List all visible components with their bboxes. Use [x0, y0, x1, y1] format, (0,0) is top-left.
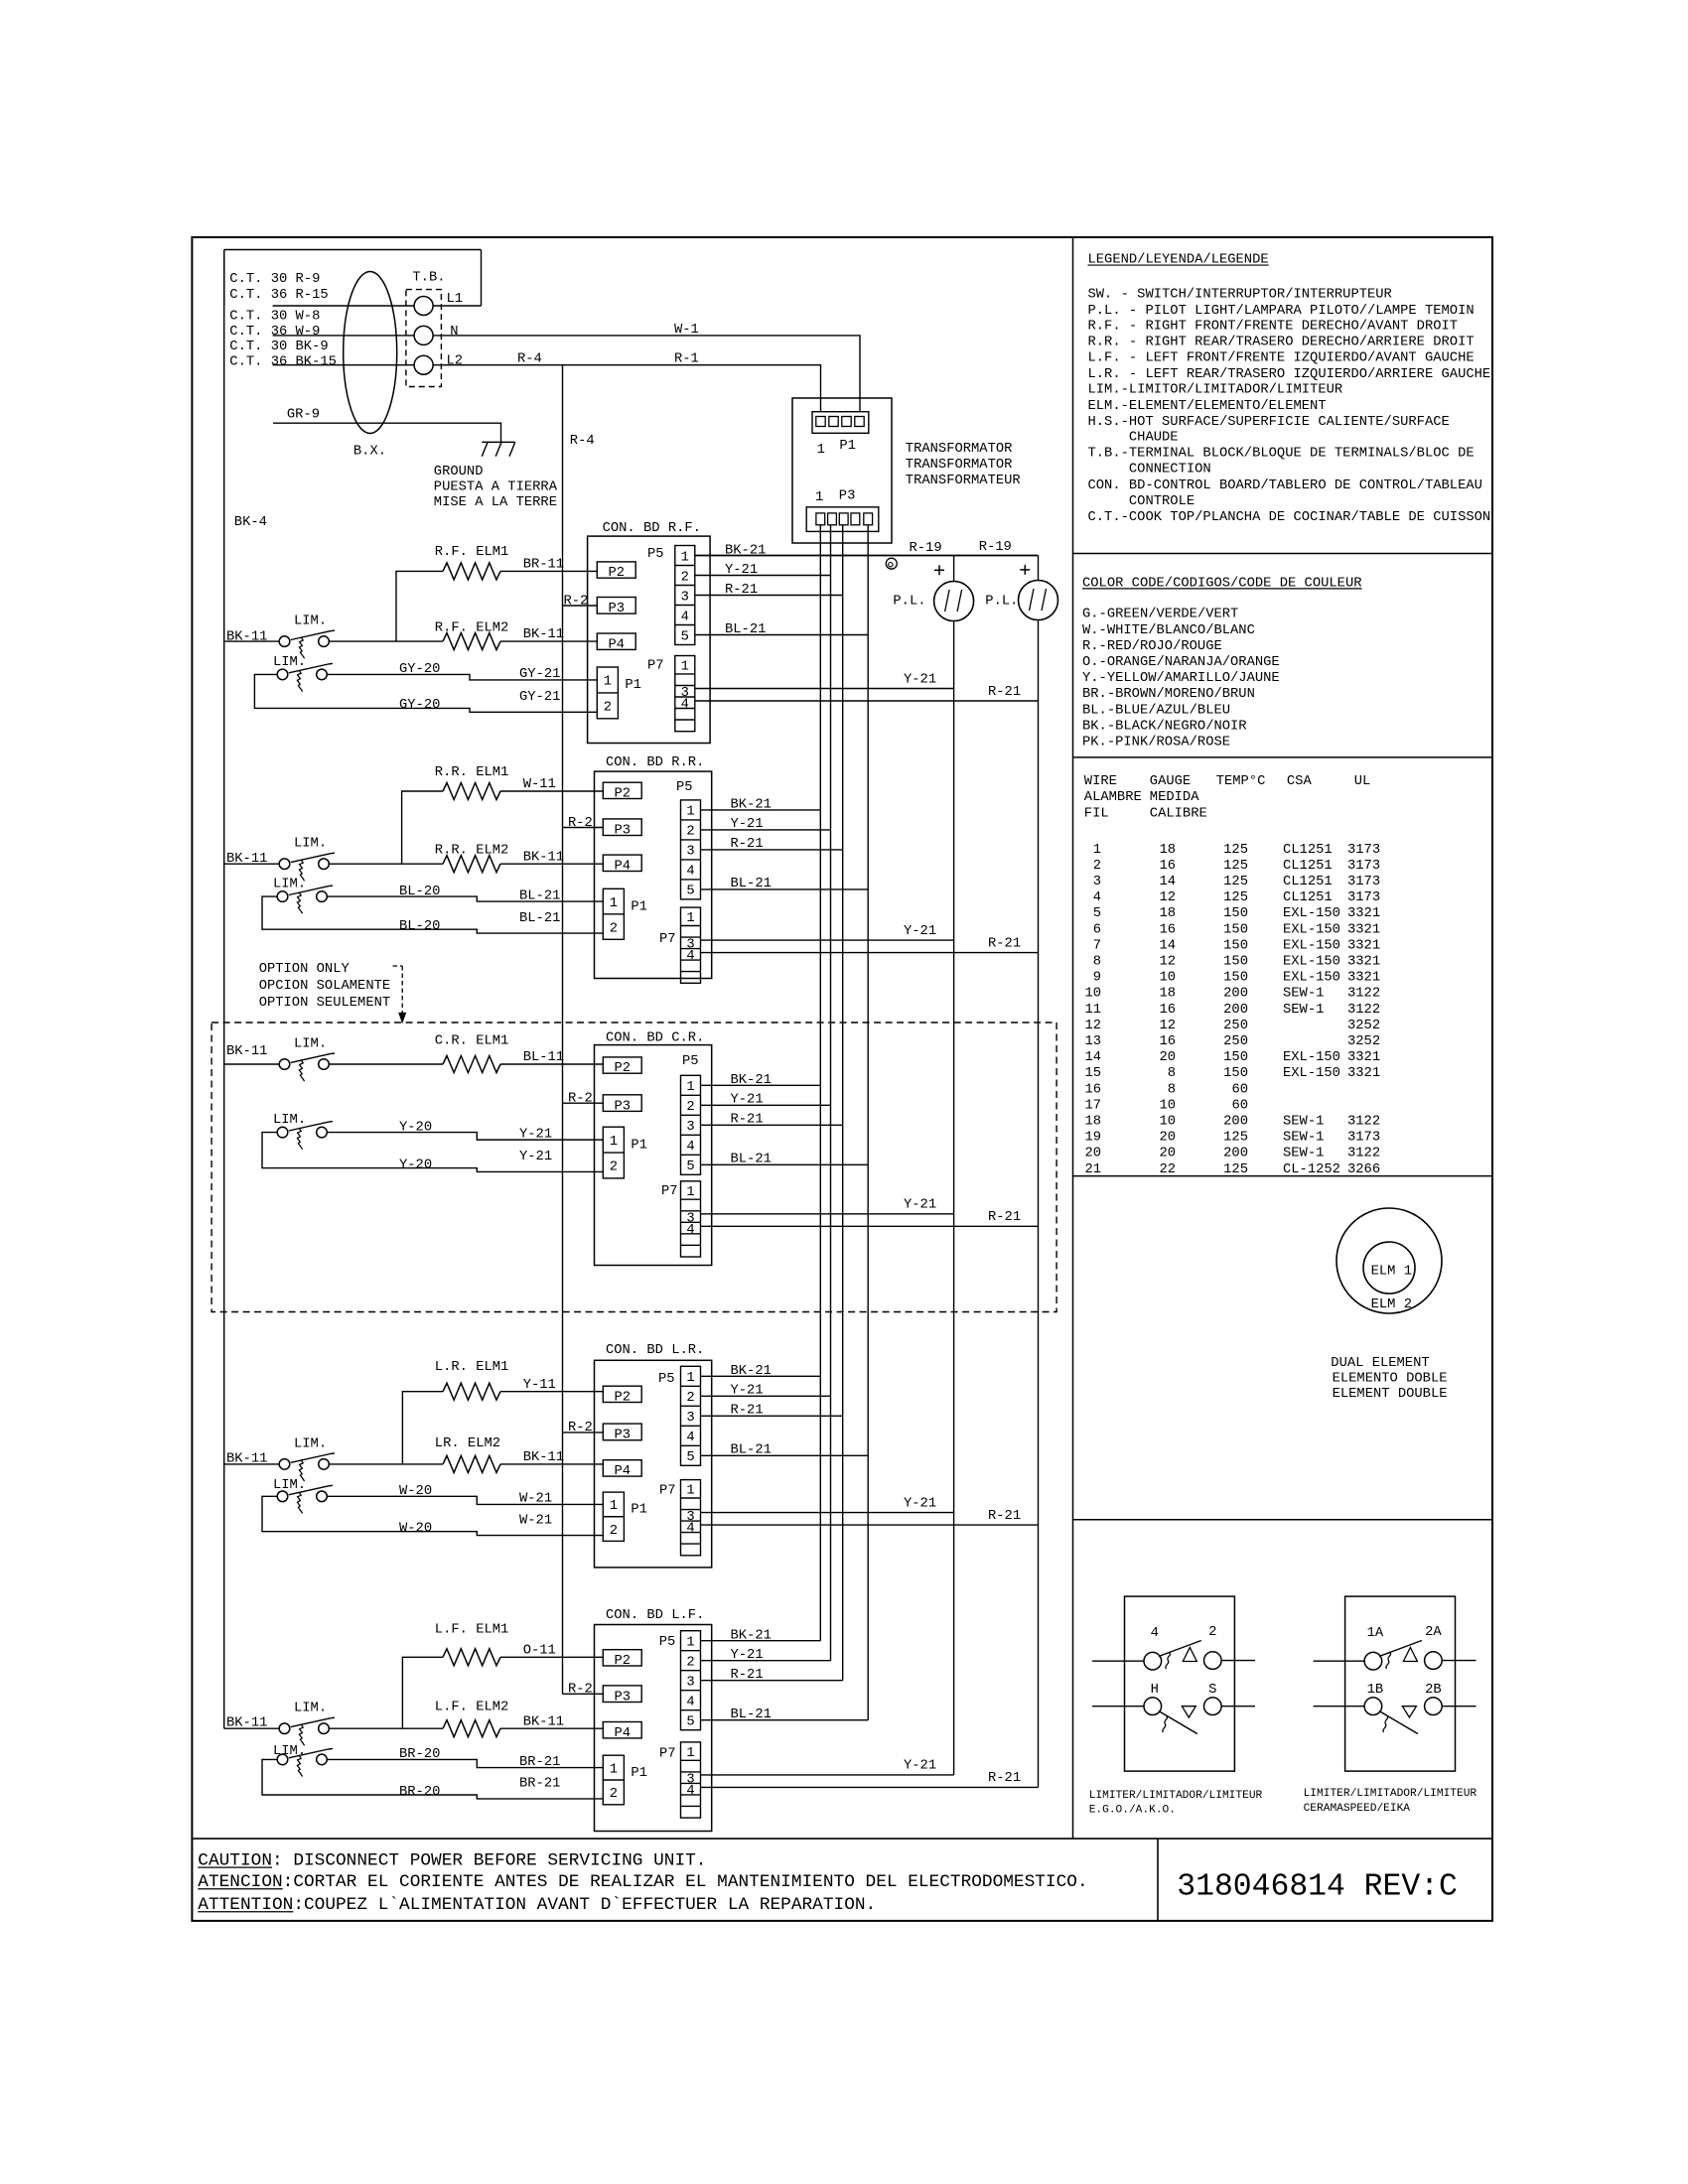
svg-text:R.F. ELM1: R.F. ELM1 [435, 545, 509, 560]
svg-text:ATENCION:CORTAR EL CORIENTE AN: ATENCION:CORTAR EL CORIENTE ANTES DE REA… [198, 1872, 1087, 1892]
limiter switch LIM upper R.F. [279, 636, 290, 647]
svg-text:P2: P2 [614, 787, 631, 802]
wire N / W-1 to transformer [433, 336, 860, 412]
svg-text:9: 9 [1093, 971, 1101, 986]
svg-text:DUAL ELEMENT: DUAL ELEMENT [1331, 1356, 1429, 1371]
svg-text:4: 4 [686, 949, 694, 964]
svg-text:5: 5 [686, 1715, 694, 1730]
wire R-21 R.R. P7 pin4 [701, 952, 1039, 954]
svg-text:BL-11: BL-11 [523, 1050, 564, 1065]
svg-text:R.F. - RIGHT FRONT/FRENTE DERE: R.F. - RIGHT FRONT/FRENTE DERECHO/AVANT … [1088, 319, 1459, 335]
svg-text:Y-21: Y-21 [904, 1496, 936, 1511]
svg-text:18: 18 [1159, 843, 1176, 858]
contact triangle bottom [1182, 1706, 1196, 1717]
terminal circles top row [1364, 1652, 1382, 1670]
svg-text:BK-11: BK-11 [226, 1452, 267, 1467]
L.F. connector P4 [603, 1722, 641, 1738]
svg-text:1: 1 [681, 660, 689, 675]
svg-text:R-19: R-19 [979, 540, 1012, 555]
bus R-21 from P3 pin3 [842, 525, 844, 1681]
svg-text:P4: P4 [614, 1464, 631, 1479]
terminal circles bottom row [1144, 1698, 1162, 1715]
svg-text:3321: 3321 [1347, 922, 1380, 937]
svg-text:ELM 2: ELM 2 [1371, 1297, 1412, 1312]
limiter switch LIM lower R.R. [277, 891, 288, 902]
R.F. connector P3 [597, 598, 635, 614]
svg-text:2: 2 [686, 1391, 694, 1406]
svg-text:CSA: CSA [1287, 774, 1313, 789]
R.F. connector P4 [597, 633, 635, 649]
wire Y-21 R.F. P5 [695, 575, 831, 577]
svg-text:150: 150 [1223, 922, 1248, 937]
svg-text:P1: P1 [631, 899, 647, 914]
svg-text:1: 1 [610, 1762, 618, 1777]
svg-text:3122: 3122 [1347, 1147, 1380, 1161]
svg-text:12: 12 [1159, 890, 1176, 905]
svg-text:R-2: R-2 [568, 816, 593, 831]
svg-text:1: 1 [686, 1746, 694, 1761]
svg-text:W.-WHITE/BLANCO/BLANC: W.-WHITE/BLANCO/BLANC [1082, 622, 1255, 638]
svg-text:CL1251: CL1251 [1283, 875, 1333, 889]
svg-text:4: 4 [1093, 890, 1101, 905]
svg-text:13: 13 [1084, 1034, 1101, 1049]
resistor C.R. ELM1 [443, 1056, 500, 1073]
pilot light lamp right [1019, 581, 1058, 620]
svg-text:GY-20: GY-20 [399, 662, 440, 677]
L.R. connector P3 [603, 1424, 641, 1440]
supply block box [223, 250, 225, 307]
svg-text:4: 4 [686, 1140, 694, 1155]
svg-text:R-2: R-2 [568, 1421, 593, 1435]
svg-text:16: 16 [1159, 922, 1176, 937]
svg-text:1: 1 [686, 911, 694, 926]
svg-text:LIM.: LIM. [273, 1744, 306, 1759]
svg-text:L.F. ELM1: L.F. ELM1 [435, 1623, 509, 1638]
wire LIM to riser L.F. [330, 1727, 443, 1729]
svg-text:CL1251: CL1251 [1283, 859, 1333, 874]
svg-text:PUESTA A TIERRA: PUESTA A TIERRA [434, 479, 558, 494]
svg-text:CALIBRE: CALIBRE [1150, 806, 1207, 821]
svg-text:R.R. - RIGHT REAR/TRASERO DERE: R.R. - RIGHT REAR/TRASERO DERECHO/ARRIER… [1088, 335, 1475, 350]
wire L2 / R-1 to transformer [433, 365, 820, 412]
switch arm top [1159, 1641, 1201, 1657]
svg-text:W-20: W-20 [399, 1521, 432, 1536]
svg-text:5: 5 [1093, 906, 1101, 921]
wire Y-20 lower C.R. [262, 1133, 603, 1172]
svg-text:150: 150 [1223, 1066, 1248, 1081]
svg-text:3173: 3173 [1347, 890, 1380, 905]
svg-text:10: 10 [1159, 971, 1176, 986]
wire L2 left [273, 364, 415, 366]
svg-text:BL-20: BL-20 [399, 885, 440, 899]
svg-text:T.B.: T.B. [412, 270, 445, 285]
svg-text:R.R. ELM1: R.R. ELM1 [435, 765, 509, 780]
svg-text:22: 22 [1159, 1162, 1176, 1177]
pilot light lamp left [934, 582, 974, 621]
svg-text:3: 3 [686, 1120, 694, 1135]
svg-text:200: 200 [1223, 1003, 1248, 1018]
wire LIM to riser L.R. [330, 1463, 443, 1465]
svg-text:11: 11 [1084, 1003, 1101, 1018]
wire BK-21 R.R. [701, 809, 821, 811]
svg-text:P7: P7 [659, 1483, 676, 1498]
contact triangle top [1183, 1648, 1196, 1662]
svg-text:12: 12 [1084, 1019, 1101, 1033]
svg-text:BK-21: BK-21 [725, 543, 766, 558]
svg-text:BK.-BLACK/NEGRO/NOIR: BK.-BLACK/NEGRO/NOIR [1082, 718, 1247, 734]
svg-text:R-4: R-4 [570, 434, 595, 449]
R.F. connector P1 [597, 667, 618, 719]
svg-text:150: 150 [1223, 938, 1248, 953]
svg-text:SW. - SWITCH/INTERRUPTOR/INTE: SW. - SWITCH/INTERRUPTOR/INTERRUPTEUR [1088, 287, 1392, 303]
C.R. connector P5 [681, 1075, 701, 1174]
svg-text:BL-21: BL-21 [731, 1153, 772, 1167]
svg-text:1: 1 [686, 1371, 694, 1386]
svg-text:7: 7 [1093, 938, 1101, 953]
wire LIM to riser R.F. [330, 640, 443, 642]
svg-text:H: H [1151, 1683, 1159, 1698]
wire ELM2 to P4 L.F. [500, 1727, 603, 1729]
svg-text:BK-11: BK-11 [226, 1044, 267, 1059]
svg-text:12: 12 [1159, 955, 1176, 970]
svg-text:18: 18 [1159, 987, 1176, 1002]
svg-text:GY-21: GY-21 [519, 690, 560, 705]
svg-text:60: 60 [1231, 1098, 1248, 1113]
svg-text:4: 4 [686, 1784, 694, 1799]
svg-text:3122: 3122 [1347, 1003, 1380, 1018]
svg-text:Y-21: Y-21 [904, 1198, 936, 1213]
svg-text:3122: 3122 [1347, 1115, 1380, 1130]
svg-text:OPCION SOLAMENTE: OPCION SOLAMENTE [259, 979, 390, 994]
svg-text:1: 1 [604, 675, 612, 690]
limiter switch LIM lower L.F. [277, 1754, 288, 1765]
svg-text:15: 15 [1084, 1066, 1101, 1081]
plus sign left [934, 569, 944, 571]
svg-text:60: 60 [1231, 1082, 1248, 1097]
svg-text:R-21: R-21 [988, 1509, 1021, 1524]
svg-text:CL1251: CL1251 [1283, 843, 1333, 858]
svg-text:BK-21: BK-21 [731, 1364, 772, 1379]
R.R. connector P5 [681, 800, 701, 899]
svg-text:4: 4 [686, 1696, 694, 1710]
svg-text:2: 2 [1093, 859, 1101, 874]
svg-text:GY-21: GY-21 [519, 667, 560, 682]
svg-text:318046814 REV:C: 318046814 REV:C [1177, 1870, 1458, 1905]
resistor LR. ELM2 [443, 1455, 500, 1472]
svg-text:BK-11: BK-11 [523, 627, 564, 642]
svg-text:5: 5 [686, 1160, 694, 1174]
wire R-21 R.F. P5 [695, 595, 843, 597]
L.F. connector P1 [603, 1755, 624, 1805]
wire table bottom line [1073, 1175, 1493, 1177]
svg-text:O-11: O-11 [523, 1643, 556, 1658]
svg-text:LIM.: LIM. [273, 1478, 306, 1493]
wire BL-21 C.R. [701, 1163, 869, 1165]
R-19 wire [694, 555, 1038, 557]
svg-text:3321: 3321 [1347, 938, 1380, 953]
svg-text:MISE A LA TERRE: MISE A LA TERRE [434, 495, 557, 510]
left BK bus wire [223, 250, 225, 1729]
svg-text:20: 20 [1159, 1131, 1176, 1146]
limiter switch LIM upper C.R. [279, 1059, 290, 1070]
wire BK-11 into R.F. [224, 640, 280, 642]
svg-text:R-21: R-21 [988, 936, 1021, 951]
wire BL-21 R.F. [695, 634, 868, 636]
svg-text:BR-20: BR-20 [399, 1747, 440, 1762]
svg-text:10: 10 [1084, 987, 1101, 1002]
L.F. connector P5 [681, 1631, 701, 1730]
svg-text:150: 150 [1223, 1050, 1248, 1065]
svg-text:21: 21 [1084, 1162, 1101, 1177]
limiter switch LIM lower C.R. [277, 1127, 288, 1138]
svg-text:EXL-150: EXL-150 [1283, 971, 1340, 986]
R.F. connector P5 [675, 546, 695, 645]
ground symbol [482, 441, 515, 443]
svg-text:L.R. - LEFT REAR/TRASERO IZQUI: L.R. - LEFT REAR/TRASERO IZQUIERDO/ARRIE… [1088, 366, 1491, 382]
C.R. connector P3 [603, 1095, 641, 1112]
svg-text:1: 1 [686, 805, 694, 820]
svg-text:4: 4 [681, 698, 689, 713]
svg-text:200: 200 [1223, 987, 1248, 1002]
legend box bottom line [1073, 553, 1493, 555]
svg-text:P5: P5 [676, 780, 693, 795]
limiter switch LIM upper R.R. [279, 859, 290, 870]
svg-text:CERAMASPEED/EIKA: CERAMASPEED/EIKA [1304, 1803, 1411, 1815]
svg-text:BK-4: BK-4 [234, 515, 267, 530]
R-21 pilot bus vertical [1038, 556, 1040, 581]
svg-text:14: 14 [1084, 1050, 1101, 1065]
color code box bottom line [1073, 756, 1493, 758]
R.R. connector P3 [603, 819, 641, 836]
svg-text:200: 200 [1223, 1147, 1248, 1161]
resistor R.F. ELM1 [443, 563, 500, 580]
transformer P3 connector [806, 507, 879, 532]
svg-text:20: 20 [1084, 1147, 1101, 1161]
svg-text:GROUND: GROUND [434, 465, 484, 479]
svg-text:BK-11: BK-11 [226, 1716, 267, 1731]
svg-text:2: 2 [604, 701, 612, 716]
control board box CON. BD L.R. [595, 1360, 712, 1568]
svg-text:CON. BD L.R.: CON. BD L.R. [606, 1343, 704, 1358]
wire BK-21 R.F. [695, 555, 1039, 557]
L.F. connector P7 [681, 1742, 701, 1818]
svg-text:BK-11: BK-11 [226, 630, 267, 645]
resistor R.F. ELM2 [443, 633, 500, 650]
svg-text:6: 6 [1093, 922, 1101, 937]
svg-text:2: 2 [686, 1656, 694, 1671]
svg-text:3173: 3173 [1347, 843, 1380, 858]
bus BL-21 from P3 pin5 [867, 525, 869, 1720]
svg-text:3321: 3321 [1347, 955, 1380, 970]
svg-text:2B: 2B [1425, 1683, 1442, 1698]
wire BK-21 L.R. [701, 1375, 821, 1377]
svg-text:C.T. 30 R-9: C.T. 30 R-9 [229, 272, 320, 287]
svg-text:5: 5 [681, 629, 689, 644]
terminal N circle [414, 326, 433, 344]
svg-text:4: 4 [686, 865, 694, 880]
limiter area top line [1073, 1519, 1493, 1521]
svg-text:LIM.: LIM. [294, 837, 327, 852]
svg-text:CONTROLE: CONTROLE [1129, 494, 1195, 509]
svg-text:200: 200 [1223, 1115, 1248, 1130]
svg-text:R-21: R-21 [731, 1113, 764, 1128]
svg-text:TEMP°C: TEMP°C [1216, 774, 1266, 789]
svg-text:EXL-150: EXL-150 [1283, 955, 1340, 970]
svg-text:ELM 1: ELM 1 [1371, 1264, 1412, 1279]
wire Y-21 L.F. P7 pin3 [701, 1774, 954, 1776]
wire BK-11 into R.R. [224, 863, 280, 865]
svg-text:Y-21: Y-21 [731, 1384, 764, 1399]
svg-text:P4: P4 [608, 637, 625, 652]
svg-text:BK-21: BK-21 [731, 798, 772, 813]
terminal circles top row [1144, 1652, 1162, 1670]
svg-text:R-19: R-19 [910, 541, 942, 556]
svg-text:EXL-150: EXL-150 [1283, 906, 1340, 921]
svg-text:EXL-150: EXL-150 [1283, 938, 1340, 953]
R.F. connector P2 [597, 562, 635, 578]
wire R-2 L.F. [563, 1693, 604, 1695]
wire Y-21 L.F. P5 [701, 1660, 831, 1662]
svg-text:P1: P1 [625, 678, 641, 693]
svg-text:BK-11: BK-11 [523, 850, 564, 865]
svg-text:12: 12 [1159, 1019, 1176, 1033]
svg-text:4: 4 [681, 610, 689, 624]
svg-text:LIM.: LIM. [294, 1702, 327, 1716]
wire ELM2 to P4 R.R. [500, 863, 603, 865]
wire L1 to box [433, 305, 481, 307]
svg-text:LIMITER/LIMITADOR/LIMITEUR: LIMITER/LIMITADOR/LIMITEUR [1304, 1788, 1477, 1800]
svg-text:Y-21: Y-21 [731, 1093, 764, 1108]
svg-text:L.R. ELM1: L.R. ELM1 [435, 1360, 509, 1375]
svg-text:R-21: R-21 [988, 685, 1021, 700]
svg-text:2: 2 [1208, 1625, 1216, 1640]
resistor R.R. ELM1 [443, 783, 500, 800]
transformer box [792, 398, 892, 543]
wire GR-9 to ground [273, 423, 501, 442]
svg-text:2: 2 [610, 1787, 618, 1802]
svg-text:1B: 1B [1367, 1683, 1384, 1698]
svg-text:1: 1 [817, 443, 825, 458]
svg-text:CON. BD C.R.: CON. BD C.R. [606, 1031, 704, 1046]
wire R-21 L.F. P7 pin4 [701, 1786, 1039, 1788]
svg-text:P3: P3 [614, 1099, 631, 1114]
svg-text:P7: P7 [659, 932, 676, 947]
wire R-21 L.R. P7 pin4 [701, 1524, 1039, 1526]
wire Y-21 L.R. P5 [701, 1395, 831, 1397]
svg-text:2: 2 [686, 825, 694, 840]
svg-text:16: 16 [1159, 1003, 1176, 1018]
plus sign right [1020, 569, 1030, 571]
svg-text:BL.-BLUE/AZUL/BLEU: BL.-BLUE/AZUL/BLEU [1082, 702, 1230, 718]
wire BR-20 upper L.F. [328, 1759, 604, 1767]
wire Y-20 upper C.R. [328, 1133, 604, 1141]
svg-text:C.T. 30 W-8: C.T. 30 W-8 [229, 310, 320, 325]
svg-text:R.F. ELM2: R.F. ELM2 [435, 621, 509, 636]
svg-text:BR-21: BR-21 [519, 1755, 560, 1770]
wires top row [1092, 1660, 1144, 1662]
bus BK-21 from P3 pin1 [819, 525, 821, 1641]
svg-text:3321: 3321 [1347, 1050, 1380, 1065]
switch arm bottom [1379, 1711, 1418, 1734]
svg-text:BL-21: BL-21 [731, 877, 772, 891]
svg-text:R-21: R-21 [988, 1771, 1021, 1786]
svg-text:MEDIDA: MEDIDA [1150, 790, 1199, 805]
svg-text:G.-GREEN/VERDE/VERT: G.-GREEN/VERDE/VERT [1082, 607, 1238, 622]
svg-text:CON. BD-CONTROL BOARD/TABLERO: CON. BD-CONTROL BOARD/TABLERO DE CONTROL… [1088, 478, 1482, 493]
svg-text:SEW-1: SEW-1 [1283, 1131, 1324, 1146]
svg-text:LIM.: LIM. [294, 1037, 327, 1052]
svg-text:Y-21: Y-21 [725, 563, 758, 578]
svg-text:125: 125 [1223, 859, 1248, 874]
svg-text:P5: P5 [647, 547, 664, 562]
svg-text:W-21: W-21 [519, 1492, 552, 1507]
svg-text:C.T. 30 BK-9: C.T. 30 BK-9 [229, 340, 328, 354]
svg-text:GR-9: GR-9 [287, 408, 320, 423]
limiter switch LIM lower R.F. [277, 669, 288, 680]
wire BL-20 upper R.R. [328, 896, 604, 901]
svg-text:SEW-1: SEW-1 [1283, 1147, 1324, 1161]
svg-text:Y.-YELLOW/AMARILLO/JAUNE: Y.-YELLOW/AMARILLO/JAUNE [1082, 670, 1280, 686]
wire BK-11 into L.R. [224, 1463, 280, 1465]
L.F. connector P2 [603, 1650, 641, 1666]
L.R. connector P7 [681, 1480, 701, 1556]
svg-text:3: 3 [686, 845, 694, 860]
contact triangle top [1403, 1648, 1417, 1662]
option dashed pointer [393, 965, 403, 967]
svg-text:18: 18 [1084, 1115, 1101, 1130]
svg-text:18: 18 [1159, 906, 1176, 921]
wire R-2 C.R. [563, 1102, 604, 1104]
svg-text:5: 5 [686, 885, 694, 899]
svg-text:1: 1 [610, 1499, 618, 1514]
svg-text:Y-21: Y-21 [519, 1150, 552, 1164]
svg-text:16: 16 [1159, 1034, 1176, 1049]
svg-text:P1: P1 [631, 1766, 647, 1781]
svg-text:BL-21: BL-21 [519, 888, 560, 903]
svg-text:TRANSFORMATOR: TRANSFORMATOR [906, 442, 1013, 457]
terminal L2 circle [414, 355, 433, 374]
svg-text:ATTENTION:COUPEZ L`ALIMENTATIO: ATTENTION:COUPEZ L`ALIMENTATION AVANT D`… [198, 1895, 876, 1915]
svg-text:P5: P5 [659, 1635, 676, 1650]
svg-text:125: 125 [1223, 1162, 1248, 1177]
svg-text:19: 19 [1084, 1131, 1101, 1146]
svg-text:OPTION SEULEMENT: OPTION SEULEMENT [259, 996, 390, 1011]
svg-text:R-1: R-1 [674, 352, 699, 367]
svg-text:BK-11: BK-11 [226, 852, 267, 867]
svg-text:BL-20: BL-20 [399, 919, 440, 934]
svg-text:P1: P1 [631, 1503, 647, 1518]
svg-text:LIM.-LIMITOR/LIMITADOR/LIMITEU: LIM.-LIMITOR/LIMITADOR/LIMITEUR [1088, 382, 1343, 398]
R.R. connector P7 [681, 907, 701, 983]
svg-text:LIM.: LIM. [273, 1113, 306, 1128]
svg-text:125: 125 [1223, 843, 1248, 858]
svg-text:R-21: R-21 [731, 1404, 764, 1419]
svg-text:3266: 3266 [1347, 1162, 1380, 1177]
svg-text:P3: P3 [839, 488, 856, 503]
limiter detail box at x=1132.5 [1125, 1596, 1235, 1771]
limiter detail box at x=1354.6 [1345, 1596, 1456, 1771]
svg-text:Y-20: Y-20 [399, 1120, 432, 1135]
svg-text:ELEMENT DOUBLE: ELEMENT DOUBLE [1333, 1387, 1448, 1402]
wire Y-21 C.R. P5 [701, 1104, 831, 1106]
svg-text:3: 3 [1093, 875, 1101, 889]
svg-text:14: 14 [1159, 875, 1176, 889]
wire BR-20 lower L.F. [262, 1759, 603, 1799]
svg-text:3122: 3122 [1347, 987, 1380, 1002]
svg-text:WIRE: WIRE [1084, 774, 1117, 789]
svg-text:P2: P2 [608, 566, 625, 581]
svg-text:O.-ORANGE/NARANJA/ORANGE: O.-ORANGE/NARANJA/ORANGE [1082, 654, 1280, 670]
